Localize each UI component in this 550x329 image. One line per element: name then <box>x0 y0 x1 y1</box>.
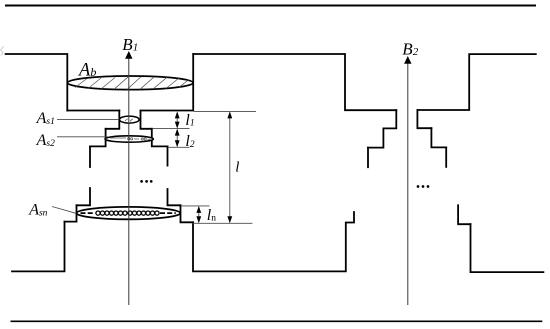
ellipsis dots pole1 <box>140 180 152 183</box>
wire pole2 right lower wall (after break) <box>458 205 470 224</box>
wire pole2 lower-right body <box>471 224 544 272</box>
pole face ellipse As1 <box>120 116 140 123</box>
wire left yoke outer profile (left of pole 1) <box>6 54 68 111</box>
axis B1 <box>125 51 132 305</box>
pole face ellipse As2 <box>105 136 153 142</box>
wire pole1 right wall lower (after break) <box>168 189 181 205</box>
bottom border line <box>11 320 543 322</box>
wire pole2 right wall (before break) <box>445 147 447 167</box>
extension line at pole bottom (for l1 and l) <box>194 110 257 112</box>
wire right yoke outer profile <box>417 54 535 110</box>
wire pole1 left step1 <box>106 111 120 129</box>
wire pole1 lower-right body and central floor <box>193 212 354 271</box>
wire top yoke between poles <box>193 54 396 110</box>
wire pole2 right step1 <box>417 110 431 128</box>
edge break mark at left margin <box>1 47 4 56</box>
wire pole1 right step2 <box>152 129 168 147</box>
wire pole1 left step2 <box>90 129 106 147</box>
extension line at step2 bottom <box>168 146 190 148</box>
extension line at stepn top <box>181 205 210 207</box>
wire pole2 left wall (before break) <box>367 148 369 168</box>
ellipsis dots pole2 <box>417 185 430 188</box>
wire pole1 bottom-left face <box>67 110 119 112</box>
dimension l (overall) <box>227 111 232 223</box>
wire pole1 lower-left body <box>12 222 65 272</box>
wire pole1 right top shelf to mid wall <box>141 54 194 111</box>
capacitor-like pole face ellipse Ab with hatching <box>68 76 194 90</box>
wire pole2 left step2 <box>368 128 383 147</box>
axis B2 <box>404 56 411 305</box>
wire pole1 left stepn wall <box>65 205 77 221</box>
wire pole1 right wall upper (before break) <box>167 146 169 165</box>
wire pole2 left step1 <box>383 110 396 128</box>
wire pole1 left wall upper (before break) <box>89 146 91 167</box>
wire pole1 left wall lower (after break) <box>77 188 91 205</box>
top border line <box>5 5 536 7</box>
wire pole1 right step1 <box>141 111 152 129</box>
extension line at step1 bottom <box>152 128 189 130</box>
svg-text:l: l <box>235 160 239 176</box>
dimension l2 <box>175 129 180 148</box>
dimension l1 <box>175 111 180 128</box>
pole face ellipse Asn with circle chain <box>77 207 181 219</box>
dimension ln <box>196 206 201 223</box>
extension line at stepn bottom (for ln and l) <box>193 222 253 224</box>
wire pole2 right step2 <box>431 128 446 147</box>
wire pole1 right stepn wall <box>181 205 194 222</box>
